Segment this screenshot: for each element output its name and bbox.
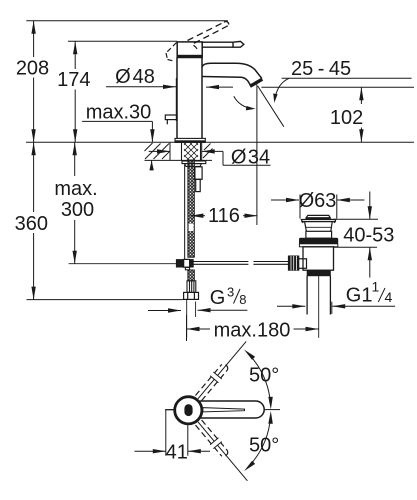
dimension 102 outlet height: [261, 87, 414, 142]
waste body: [303, 247, 334, 270]
svg-text:4: 4: [385, 289, 393, 305]
supply hose lower section (braided): [188, 270, 194, 281]
waste collar: [306, 231, 332, 238]
svg-text:174: 174: [57, 69, 90, 91]
rod clamp left block: [176, 260, 183, 267]
dimension 116: [190, 205, 257, 227]
reference line top of lever (208 datum): [26, 20, 228, 22]
dimension G3/8 supply thread: [148, 285, 247, 313]
supply hose upper section (braided): [188, 160, 194, 257]
mounting washer plate: [182, 161, 206, 164]
svg-text:8: 8: [239, 292, 246, 307]
rod clamp right block: [190, 260, 194, 267]
svg-text:116: 116: [208, 205, 240, 227]
knurled rod knob: [288, 256, 299, 270]
svg-text:max.180: max.180: [214, 319, 291, 341]
head box dashed (tilted position): [166, 43, 198, 61]
lever handle dashed (lifted position): [188, 22, 229, 44]
svg-text:102: 102: [330, 107, 363, 129]
drain centreline: [318, 276, 320, 338]
countertop deck top line: [26, 141, 414, 143]
svg-text:max.: max.: [54, 178, 97, 200]
upper 50deg ray centreline: [198, 341, 246, 398]
break band on -50 lever: [210, 437, 222, 449]
svg-text:Ø63: Ø63: [299, 190, 337, 212]
pop-up waste plug disc: [306, 215, 330, 219]
svg-text:25-45: 25-45: [291, 58, 351, 80]
waste top brim (O63): [301, 220, 336, 224]
dimension max.300: [54, 142, 97, 263]
lever root pill top view: [184, 404, 192, 416]
angle arc upper: [244, 350, 273, 410]
dimension 25 - 45 spray angle: [273, 58, 411, 103]
lower 50deg ray centreline: [198, 422, 248, 481]
svg-text:360: 360: [15, 213, 48, 235]
dimension 208: [16, 21, 49, 143]
lever handle (solid, horizontal position): [202, 41, 244, 47]
deck hole right edge: [201, 142, 203, 160]
dimension 174: [57, 41, 90, 142]
spout: [202, 63, 262, 85]
clamp lower tab: [185, 267, 189, 269]
countertop deck bottom line: [145, 159, 213, 161]
angle arc lower: [244, 411, 273, 471]
deck hatch: [145, 143, 213, 159]
svg-text:50°: 50°: [249, 435, 279, 457]
rubber gasket (dark): [299, 238, 337, 244]
deck hole left edge: [169, 142, 171, 160]
svg-text:41: 41: [166, 441, 188, 463]
spout stub tick left: [165, 409, 174, 411]
shank thread crosshatch: [184, 143, 198, 160]
mounting nut: [185, 164, 202, 167]
dimension 360: [15, 142, 48, 299]
waste bottom flange (dark): [307, 271, 330, 276]
dimension max.180: [187, 315, 319, 341]
base flange on deck: [175, 138, 205, 142]
svg-text:3: 3: [227, 285, 234, 300]
lever blade slot top view: [203, 408, 245, 412]
faucet cartridge head box: [177, 42, 202, 58]
body circle top view: [175, 397, 202, 424]
horizontal pop-up rod left thin section: [69, 263, 177, 265]
dimension diameter 34 hole: [149, 147, 271, 169]
svg-text:1: 1: [372, 279, 380, 295]
svg-text:300: 300: [61, 199, 94, 221]
spout outlet vertical extension line: [256, 85, 258, 226]
G3/8 hex nut: [184, 292, 199, 299]
dashed lever rotated -50deg: [196, 420, 228, 456]
pop-up rod knob at rear of body: [165, 115, 177, 124]
svg-text:G: G: [210, 287, 226, 309]
break band on +50 lever: [210, 372, 222, 384]
svg-text:208: 208: [16, 57, 49, 79]
rod ball joint stem: [297, 259, 307, 269]
svg-text:max.30: max.30: [86, 102, 152, 124]
faucet body column: [177, 58, 202, 139]
dimension 40-53 clamping range: [333, 192, 394, 278]
faucet centreline below hex: [186, 299, 188, 337]
lever top view outline: [193, 401, 264, 418]
dimension diameter 48: [106, 66, 233, 121]
reference line top of body (174 datum): [68, 40, 177, 42]
G1 1/4 tailpipe: [307, 276, 330, 315]
mounting stud: [195, 167, 202, 180]
centreline right of lever: [265, 409, 281, 411]
dimension G1 1/4 waste thread: [277, 279, 395, 315]
svg-text:40-53: 40-53: [343, 225, 394, 247]
horizontal pop-up rod to drain (double line): [193, 262, 288, 265]
dimension diameter 63: [271, 190, 364, 219]
hose ferrule: [187, 281, 196, 293]
curved arrow to vertical (stream swivel left): [234, 96, 256, 110]
svg-text:Ø48: Ø48: [115, 66, 155, 88]
svg-text:Ø34: Ø34: [231, 147, 270, 169]
pop-up vertical rod: [184, 164, 186, 260]
threaded shank through deck: [182, 143, 201, 161]
dashed lever rotated +50deg: [196, 364, 228, 400]
svg-text:G1: G1: [346, 285, 373, 307]
stud lower section: [196, 179, 201, 191]
thread extension line right: [195, 302, 197, 318]
dimension 41: [135, 410, 211, 464]
dimension max.30 deck thickness: [82, 102, 155, 171]
head/body junction ring (dark band): [177, 55, 202, 58]
rod clamp centre: [184, 259, 190, 267]
waste tapered neck: [305, 222, 333, 232]
gasket washer: [299, 244, 337, 247]
svg-text:50°: 50°: [249, 365, 279, 387]
hose end reference line (360 datum): [27, 299, 184, 301]
spout outlet rim (aerator): [250, 79, 262, 86]
water stream diagonal line: [258, 86, 284, 127]
